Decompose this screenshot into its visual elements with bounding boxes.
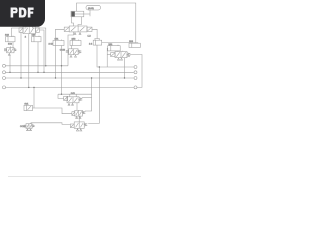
valve 1V1 right pilot <box>36 28 40 33</box>
wire line R1 down to valve 2V3 right feed <box>88 67 99 123</box>
bus line 4 <box>6 86 134 88</box>
wire 2V2 right side down to bus 4 <box>130 55 142 88</box>
valve 1V2 (3/2) <box>4 46 16 52</box>
wire 2V2 supply down to bus 3 <box>124 58 126 78</box>
exhaust 2V1 <box>74 32 81 34</box>
footer rule <box>8 176 141 178</box>
wire COM2 out to valve 2V3 left <box>31 123 71 125</box>
valve 2V1 right pilot <box>87 27 92 31</box>
wire 1V1 supply down to bus 4 <box>28 34 30 88</box>
wire cylinder1 right port down to bus 1 <box>33 27 46 66</box>
valve 2V2 left pilot <box>111 53 116 57</box>
wire 0V1 to valve 1V4 left <box>34 108 72 114</box>
valve 1V1 left pilot <box>19 28 23 33</box>
limit switch box 1S2 <box>6 36 16 42</box>
wire 1V1 left pilot down to bus 3 <box>20 32 22 78</box>
wire box E to box D (top rail) <box>102 42 138 44</box>
wire bus4 down to flow control 0V1 <box>33 87 35 108</box>
node circle 3 left <box>3 77 6 80</box>
rail above valve 1V3 <box>58 94 92 98</box>
limit switch box 1S3 <box>32 36 42 42</box>
valve 1V4 (5/2) <box>72 110 85 116</box>
junction dots <box>9 65 125 95</box>
node circle 2 right <box>134 71 137 74</box>
exhaust 2V3 <box>76 128 82 131</box>
svg-text:COM: COM <box>20 126 25 128</box>
valve 1V1 (5/2) body <box>23 27 36 34</box>
valve 2V2 right spring <box>127 53 130 57</box>
valve 2V3 (3/2) <box>70 122 86 128</box>
svg-text:COM: COM <box>60 50 65 52</box>
bus line 3 <box>6 77 134 79</box>
limit switch box 2S2 <box>70 40 81 46</box>
wire box 1S3 down to bus 1 <box>37 42 39 73</box>
PDF badge <box>0 0 45 27</box>
valve 2V1 (5/2) body <box>69 26 87 32</box>
wire box 1S1 down to bus 3 <box>55 46 57 79</box>
limit switch box 1S1 <box>53 40 64 46</box>
node circle 4 left <box>3 86 6 89</box>
valve 1V3 (3/2 pilot) <box>64 94 92 103</box>
wire cylinder1 left port to valve 1V1 <box>12 27 27 37</box>
line R1 from box E down and to node circle 1 right <box>97 45 134 67</box>
valve COM2 (3/2) <box>24 123 34 129</box>
cylinder 2A body <box>71 11 90 17</box>
wire box 1S1 right down to rail above valve 1V3 <box>61 46 63 95</box>
node circle 1 left <box>3 64 6 67</box>
limit switch box 2S3 <box>129 43 140 48</box>
valve 2V2 (5/2) body <box>115 51 127 58</box>
wire top loop from cylinder to right valve group <box>77 3 136 43</box>
wire box 1S2 down to valve 1V2 <box>12 42 14 48</box>
flow control 0V1 <box>24 105 33 110</box>
wire 1V2 left port down to bus 2 <box>9 56 11 73</box>
wire 2V2 left pilot to line R1 <box>107 54 110 56</box>
wire 2V1 left pilot to box 1S1 <box>56 29 65 39</box>
bus line 1 <box>6 65 69 67</box>
wire cylinder 2A left port down to valve 2V1 <box>72 17 74 26</box>
wire 1V1 right pilot down to bus 2 <box>40 30 45 72</box>
exhaust 1V4 <box>76 116 81 118</box>
exhaust 2V2 <box>118 58 123 60</box>
wire box 2S2 down to valve COM1 <box>71 46 73 49</box>
wire 1V4 to 2V3 <box>78 116 80 122</box>
exhaust COM1 <box>70 55 77 57</box>
bus line 2 <box>6 71 134 73</box>
valve COM1 (3/2) <box>66 49 81 55</box>
valve 2V1 left pilot <box>64 27 69 31</box>
node circle 4 right <box>134 86 137 89</box>
node circle 3 right <box>134 77 137 80</box>
label tag cylinder 2A <box>86 5 101 12</box>
node circle 2 left <box>3 71 6 74</box>
limit switch box 2S1 <box>108 45 121 51</box>
exhaust 1V3 <box>68 103 74 105</box>
wire 2V1 supply down to bus 1 <box>68 32 74 66</box>
box E <box>93 39 102 46</box>
wire cylinder 2A right port down to valve 2V1 <box>78 17 82 26</box>
svg-text:(0.00): (0.00) <box>88 8 94 10</box>
wire box 2S1 left port down to line R1 <box>106 48 109 67</box>
wire 2V1 right pilot down to box E <box>92 29 97 38</box>
wire bus3 down to valve 1V4 right pilot <box>85 78 92 111</box>
exhaust COM2 <box>27 129 32 131</box>
exhaust 1V2 <box>8 53 10 55</box>
node circle 1 right <box>134 66 137 69</box>
wire 1V3 to 1V4 <box>76 103 78 111</box>
